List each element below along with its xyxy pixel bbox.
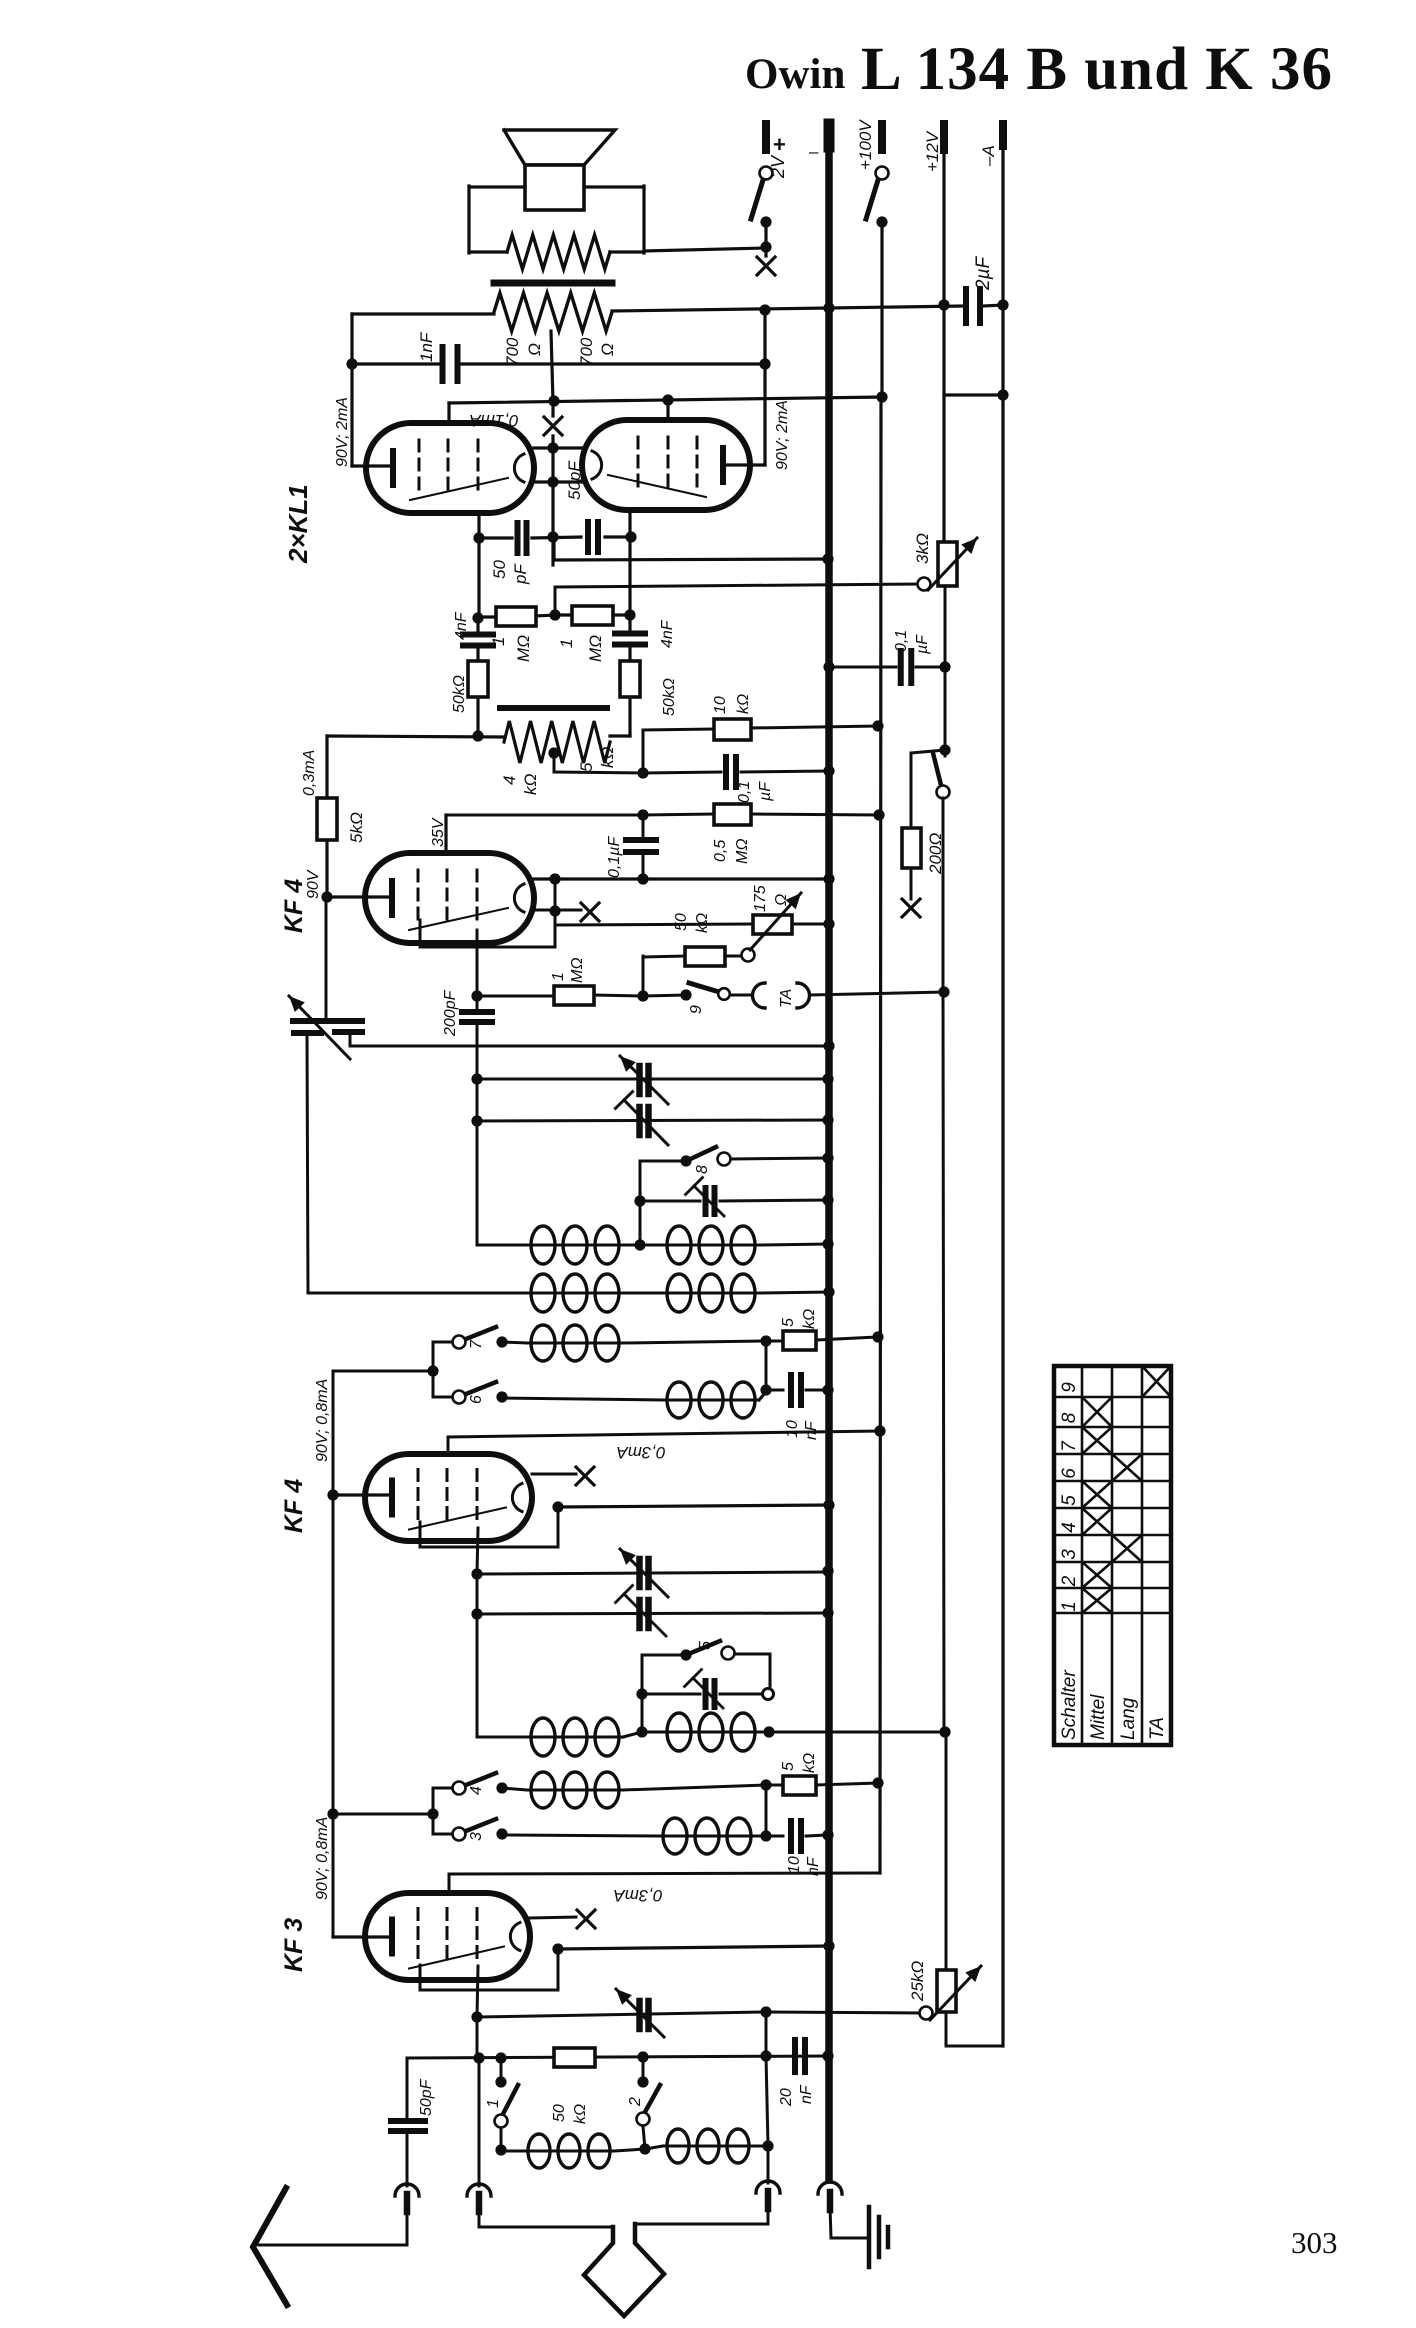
variable capacitor antenna tuning bbox=[477, 2012, 766, 2017]
switch at +2V terminal bbox=[760, 167, 773, 180]
wire KF3 screen loop bbox=[557, 1949, 560, 1990]
tube KL1 left bbox=[366, 423, 534, 513]
wire AVC to 25k pot bbox=[769, 1731, 945, 1734]
svg-text:+: + bbox=[773, 132, 786, 157]
svg-text:50kΩ: 50kΩ bbox=[661, 678, 678, 716]
wire cathode column x333 bbox=[332, 1371, 335, 1937]
svg-text:–: – bbox=[809, 142, 819, 161]
svg-text:nF: nF bbox=[798, 2084, 815, 2104]
svg-text:9: 9 bbox=[1059, 1382, 1080, 1393]
svg-text:6: 6 bbox=[468, 1395, 485, 1404]
svg-text:303: 303 bbox=[1291, 2225, 1338, 2260]
wire bottom bus to diamond bbox=[478, 2208, 481, 2227]
svg-text:4: 4 bbox=[468, 1786, 485, 1795]
wire KF3 anode to bus bbox=[558, 1946, 829, 1949]
coil osc primary right bbox=[667, 1226, 691, 1264]
wire KF4 anode to bus bbox=[534, 877, 829, 880]
wire to 25k volume pot bbox=[766, 2012, 920, 2013]
resistor 1M-ohm AF coupling bbox=[477, 995, 554, 998]
variable capacitor IF2 a bbox=[477, 1572, 828, 1574]
svg-text:–A: –A bbox=[979, 145, 998, 167]
svg-text:Mittel: Mittel bbox=[1088, 1694, 1109, 1740]
coil IF2 left bbox=[636, 1726, 647, 1737]
svg-text:µF: µF bbox=[914, 634, 931, 655]
jack earth coil bbox=[756, 2181, 780, 2193]
svg-text:50pF: 50pF bbox=[565, 460, 584, 500]
+100V feed line (vertical) bbox=[880, 222, 883, 397]
wire switch column x433 bbox=[432, 1342, 435, 1397]
svg-text:3: 3 bbox=[468, 1832, 485, 1841]
resistor 50k-ohm grid stopper bbox=[643, 956, 685, 957]
svg-text:nF: nF bbox=[803, 1420, 820, 1440]
battery terminal +2V bbox=[762, 124, 770, 150]
svg-text:25kΩ: 25kΩ bbox=[908, 1961, 927, 2002]
wire KF4 screen loop under tube bbox=[549, 873, 560, 884]
svg-text:700: 700 bbox=[503, 337, 522, 366]
loudspeaker bbox=[504, 130, 615, 165]
svg-text:3: 3 bbox=[1059, 1549, 1080, 1560]
capacitor 4nF left bbox=[476, 617, 479, 633]
wire switch5 left column bbox=[641, 1655, 644, 1732]
svg-text:5: 5 bbox=[577, 762, 596, 772]
svg-text:KF 4: KF 4 bbox=[280, 879, 308, 933]
svg-text:kΩ: kΩ bbox=[521, 774, 540, 796]
switch 7 bbox=[453, 1336, 466, 1349]
resistor output transformer primary 700ohm+700ohm bbox=[494, 293, 612, 331]
svg-text:5kΩ: 5kΩ bbox=[347, 812, 366, 843]
wire x766 column IF2 bbox=[765, 1785, 768, 1836]
resistor 10k-ohm bbox=[714, 719, 751, 740]
wire -A to bias chain y395 bbox=[944, 393, 1003, 396]
svg-text:0,5: 0,5 bbox=[712, 840, 729, 862]
wire KF4b screen loop bbox=[557, 1507, 560, 1547]
svg-text:8: 8 bbox=[694, 1165, 711, 1174]
wire KL1 left grid down bbox=[477, 513, 480, 617]
wire tone row y925 bbox=[556, 924, 753, 925]
svg-text:7: 7 bbox=[1059, 1440, 1080, 1452]
svg-text:0,3mA: 0,3mA bbox=[613, 1886, 662, 1905]
capacitor 20nF bbox=[792, 2040, 798, 2072]
bias line x944 down to pot bbox=[942, 305, 945, 542]
wire tuning cap left plate down bbox=[307, 1036, 308, 1293]
svg-text:0,1mA: 0,1mA bbox=[469, 411, 518, 430]
svg-text:4nF: 4nF bbox=[659, 619, 676, 648]
wire KL1 left cathode bbox=[352, 464, 392, 467]
x mark anode bridge bbox=[544, 417, 562, 435]
svg-text:50: 50 bbox=[551, 2104, 568, 2122]
svg-text:9: 9 bbox=[688, 1005, 705, 1014]
capacitor 0,1uF anode bypass bbox=[642, 815, 645, 839]
svg-text:TA: TA bbox=[1147, 1717, 1168, 1740]
capacitor 10nF IF1 bbox=[766, 1389, 783, 1392]
wire KF3 cathode lead bbox=[333, 1935, 392, 1938]
capacitor 50pF lower bbox=[515, 523, 521, 553]
battery terminal +12V bbox=[940, 124, 948, 150]
wire KL1 right grid down bbox=[628, 510, 631, 615]
wire grid row KF3 y2058 bbox=[407, 2056, 828, 2058]
switch at +100V terminal bbox=[876, 167, 889, 180]
battery terminal -A bbox=[999, 124, 1007, 146]
wire 3k pot bottom column bbox=[944, 586, 947, 756]
resistor 50k-ohm right (KL1 grid) bbox=[620, 661, 640, 697]
svg-text:10: 10 bbox=[784, 1420, 801, 1438]
svg-text:1: 1 bbox=[485, 2099, 502, 2108]
wire KF4b grid exit bbox=[477, 1528, 478, 1574]
svg-text:1nF: 1nF bbox=[417, 331, 436, 362]
svg-text:Ω: Ω bbox=[598, 343, 617, 356]
tube KF3 bbox=[365, 1893, 530, 1980]
svg-text:MΩ: MΩ bbox=[514, 635, 533, 662]
svg-text:1: 1 bbox=[550, 972, 567, 981]
switch 9 TA bbox=[680, 989, 691, 1000]
rheostat 175 ohm bbox=[742, 949, 755, 962]
wire x768 column KF3 bbox=[765, 2012, 768, 2056]
wire KF3 grid exit bbox=[477, 1966, 478, 2017]
svg-text:+100V: +100V bbox=[856, 119, 875, 170]
variable capacitor IF2 b bbox=[477, 1613, 828, 1614]
capacitor 2uF bbox=[963, 289, 969, 323]
x mark KF4b bbox=[532, 1473, 576, 1476]
transformer core bar small bbox=[500, 705, 607, 711]
battery terminal +100V bbox=[878, 124, 886, 150]
wire speaker frame to +2V switch bbox=[644, 248, 766, 251]
wire screen-grid feed row y400 bbox=[449, 397, 882, 403]
variable capacitor padder 1 bbox=[636, 1066, 643, 1094]
tube KF4 first bbox=[365, 853, 534, 943]
switch bias bbox=[933, 753, 941, 785]
jack TA bbox=[752, 983, 765, 1008]
wire left frame vertical bbox=[350, 314, 353, 466]
svg-text:4: 4 bbox=[1059, 1522, 1080, 1533]
svg-text:7: 7 bbox=[468, 1339, 485, 1349]
svg-text:µF: µF bbox=[757, 781, 774, 802]
switch 8 bbox=[640, 1160, 686, 1163]
wire grid line y1079 bbox=[477, 1078, 828, 1081]
svg-text:pF: pF bbox=[511, 563, 530, 585]
svg-text:2µF: 2µF bbox=[973, 255, 994, 291]
svg-text:90V; 2mA: 90V; 2mA bbox=[774, 400, 791, 470]
wire 25k bottom to -A bbox=[945, 2012, 948, 2046]
wire screen row y815 with 0,5M to +100V bbox=[446, 814, 643, 817]
wire KF4b anode to bus bbox=[558, 1505, 829, 1507]
svg-text:kΩ: kΩ bbox=[735, 694, 752, 714]
svg-text:0,1µF: 0,1µF bbox=[606, 836, 623, 878]
coil IF2 right bbox=[667, 1713, 691, 1751]
capacitor 4nF right bbox=[628, 615, 631, 632]
resistor 1M-ohm left bbox=[479, 615, 496, 618]
resistor speaker voice coil winding bbox=[507, 235, 610, 269]
capacitor 50pF upper bbox=[585, 522, 591, 552]
coil antenna right bbox=[667, 2129, 689, 2163]
jack antenna direct bbox=[467, 2184, 491, 2196]
svg-text:10: 10 bbox=[712, 696, 729, 714]
wire KL1 right cathode bbox=[723, 463, 765, 466]
svg-text:+12V: +12V bbox=[923, 130, 942, 172]
capacitor 200pF bbox=[476, 996, 479, 1009]
table x marks bbox=[1142, 1366, 1171, 1397]
capacitor 0,1uF to bus bbox=[643, 772, 721, 773]
coil band right 1 bbox=[663, 1818, 687, 1854]
svg-text:1: 1 bbox=[557, 639, 576, 648]
svg-text:4: 4 bbox=[500, 776, 519, 785]
wire KF4b cathode lead bbox=[333, 1493, 392, 1496]
svg-text:90V; 2mA: 90V; 2mA bbox=[334, 397, 351, 467]
svg-text:0,1: 0,1 bbox=[893, 630, 910, 652]
svg-text:TA: TA bbox=[778, 989, 795, 1008]
trimmer capacitor IF2 bbox=[642, 1693, 700, 1696]
frame antenna (diamond) bbox=[584, 2224, 664, 2316]
switch 6 bbox=[453, 1391, 466, 1404]
svg-text:20: 20 bbox=[778, 2088, 795, 2107]
transformer core bar bbox=[494, 280, 612, 287]
svg-text:50: 50 bbox=[490, 560, 509, 579]
switch table grid bbox=[1054, 1366, 1171, 1745]
coil osc secondary right bbox=[667, 1274, 691, 1312]
jack antenna 50pF bbox=[395, 2184, 419, 2196]
svg-text:1: 1 bbox=[1059, 1601, 1080, 1612]
wire y1121 row bbox=[477, 1120, 828, 1121]
resistor 50k-ohm KF3 grid bbox=[554, 2048, 595, 2067]
coil osc secondary left bbox=[531, 1274, 555, 1312]
svg-text:MΩ: MΩ bbox=[569, 958, 586, 984]
wire 25k to AVC line bbox=[945, 1732, 948, 1970]
svg-text:90V; 0,8mA: 90V; 0,8mA bbox=[314, 1379, 331, 1462]
capacitor 0,1uF bias bbox=[829, 666, 896, 669]
wire switch5 right column bbox=[769, 1654, 772, 1694]
svg-text:MΩ: MΩ bbox=[734, 839, 751, 865]
switch 4 bbox=[453, 1782, 466, 1795]
svg-text:Lang: Lang bbox=[1118, 1697, 1139, 1740]
svg-text:0,3mA: 0,3mA bbox=[301, 750, 318, 796]
wire x477 column KF3 bbox=[476, 2017, 479, 2058]
wire 10k feed corner bbox=[642, 730, 645, 773]
svg-text:5: 5 bbox=[780, 1318, 797, 1327]
-A line (vertical) bbox=[1001, 146, 1004, 2046]
svg-text:MΩ: MΩ bbox=[586, 635, 605, 662]
svg-text:4nF: 4nF bbox=[453, 611, 470, 640]
svg-text:2: 2 bbox=[1059, 1575, 1080, 1587]
wire earth jack to ground bbox=[830, 2206, 831, 2238]
svg-text:Owin: Owin bbox=[745, 51, 845, 98]
svg-text:200pF: 200pF bbox=[442, 989, 459, 1037]
trimmer capacitor osc bbox=[640, 1200, 700, 1203]
wire 35V screen lead bbox=[444, 815, 447, 853]
chassis bus (thick vertical) bbox=[825, 127, 833, 2180]
wire KL1 anode bridge horizontals bbox=[534, 446, 582, 449]
svg-text:6: 6 bbox=[1059, 1468, 1080, 1479]
svg-text:5: 5 bbox=[697, 1641, 714, 1650]
svg-text:0,1: 0,1 bbox=[736, 781, 753, 803]
variable capacitor tuning KF4 grid bbox=[325, 899, 328, 1018]
svg-text:L 134 B und K 36: L 134 B und K 36 bbox=[861, 36, 1333, 103]
switch 2 bbox=[642, 2057, 645, 2082]
wire x766 column IF1 bbox=[765, 1341, 768, 1390]
coil band right 4 bbox=[667, 1382, 691, 1418]
wire antenna to jack bbox=[406, 2208, 409, 2245]
wire switch column x433 b bbox=[432, 1788, 435, 1834]
svg-text:2×KL1: 2×KL1 bbox=[283, 484, 313, 564]
svg-text:kΩ: kΩ bbox=[598, 747, 617, 769]
wire cap row to bus bbox=[552, 537, 555, 560]
capacitor 1nF bbox=[352, 362, 440, 365]
svg-text:50pF: 50pF bbox=[418, 2078, 435, 2116]
capacitor 10nF IF2 bbox=[788, 1821, 794, 1851]
svg-text:10: 10 bbox=[786, 1856, 803, 1874]
wire grid-leak center to volume pot 3k bbox=[555, 584, 924, 587]
wire bias column to TA bbox=[942, 798, 945, 992]
wire tap to 0,1uF row bbox=[553, 753, 556, 772]
antenna symbol (chevron) bbox=[253, 2188, 287, 2305]
wire 5k resistor feed from KF4 bbox=[327, 736, 504, 737]
variable capacitor padder 2 bbox=[636, 1107, 643, 1135]
svg-text:50: 50 bbox=[673, 913, 690, 931]
wire x477 column IF2 bbox=[476, 1574, 479, 1737]
svg-text:Schalter: Schalter bbox=[1059, 1670, 1080, 1740]
x mark 200 ohm bbox=[902, 899, 920, 917]
svg-text:Ω: Ω bbox=[773, 894, 790, 906]
switch 1 bbox=[500, 2058, 503, 2082]
wire screen feed row y1432 bbox=[448, 1431, 880, 1437]
wire grid cap row y537 bbox=[479, 536, 512, 539]
svg-text:90V; 0,8mA: 90V; 0,8mA bbox=[314, 1817, 331, 1900]
wire +2V switch to node bbox=[764, 222, 767, 256]
x mark measuring point +2V bbox=[757, 257, 775, 275]
svg-text:3kΩ: 3kΩ bbox=[913, 533, 932, 564]
wire transformer left to frame bbox=[352, 312, 494, 315]
svg-text:5: 5 bbox=[780, 1762, 797, 1771]
switch 5 bbox=[642, 1654, 686, 1657]
coil antenna left bbox=[528, 2134, 550, 2168]
resistor 0,5M-ohm bbox=[714, 804, 751, 825]
coil osc primary left bbox=[531, 1226, 555, 1264]
wire x477 column bbox=[476, 1079, 479, 1245]
x mark KF3 bbox=[530, 1917, 576, 1918]
speaker frame wires bbox=[469, 185, 525, 188]
+12V line bbox=[942, 150, 945, 305]
wire 2mA vertical x765 bbox=[763, 310, 766, 465]
svg-text:KF 3: KF 3 bbox=[280, 1918, 308, 1972]
earth ground symbol bbox=[867, 2207, 872, 2267]
coil band left 2 bbox=[531, 1772, 555, 1808]
resistor 5k-ohm IF2 bbox=[783, 1776, 816, 1795]
capacitor 50pF antenna bbox=[406, 2058, 409, 2118]
tube KL1 right bbox=[582, 420, 750, 510]
wire screen feed row KF3 bbox=[449, 1873, 878, 1874]
wire switch8 column x640 bbox=[639, 1161, 642, 1245]
svg-text:2: 2 bbox=[627, 2097, 644, 2107]
resistor 5k-ohm KF4 anode bbox=[325, 736, 328, 798]
svg-text:Ω: Ω bbox=[525, 343, 544, 356]
rheostat 25k-ohm bbox=[920, 2007, 933, 2020]
wire anode bridge vertical bbox=[551, 331, 553, 402]
tube KF4 second bbox=[365, 1454, 532, 1541]
resistor 5k-ohm IF1 bbox=[783, 1331, 816, 1350]
svg-text:175: 175 bbox=[752, 885, 769, 912]
wire KF4 grid exit bbox=[476, 930, 479, 996]
svg-text:KF 4: KF 4 bbox=[280, 1479, 308, 1533]
jack chassis bus bbox=[818, 2182, 842, 2194]
coil band left 3 bbox=[531, 1325, 555, 1361]
svg-text:5: 5 bbox=[1059, 1495, 1080, 1506]
x mark KF4 grid cap bbox=[534, 909, 581, 912]
switch 3 bbox=[453, 1828, 466, 1841]
svg-text:35V: 35V bbox=[430, 817, 447, 847]
svg-text:700: 700 bbox=[577, 337, 596, 366]
resistor 200 ohm bbox=[910, 753, 913, 828]
resistor 4k-ohm 5k-ohm tapped bbox=[504, 721, 610, 763]
svg-text:kΩ: kΩ bbox=[572, 2104, 589, 2124]
svg-text:kΩ: kΩ bbox=[801, 1753, 818, 1773]
wire anode supply row y308 bbox=[612, 308, 829, 311]
resistor 1M-ohm right bbox=[555, 613, 572, 616]
svg-text:kΩ: kΩ bbox=[801, 1309, 818, 1329]
resistor 50k-ohm left (KL1 grid) bbox=[468, 661, 488, 697]
wire KF4 cathode lead bbox=[321, 891, 332, 902]
svg-text:0,3mA: 0,3mA bbox=[616, 1443, 665, 1462]
svg-text:50kΩ: 50kΩ bbox=[451, 675, 468, 713]
wire tuning cap right plate to bus bbox=[349, 1032, 352, 1046]
svg-text:8: 8 bbox=[1059, 1412, 1080, 1423]
